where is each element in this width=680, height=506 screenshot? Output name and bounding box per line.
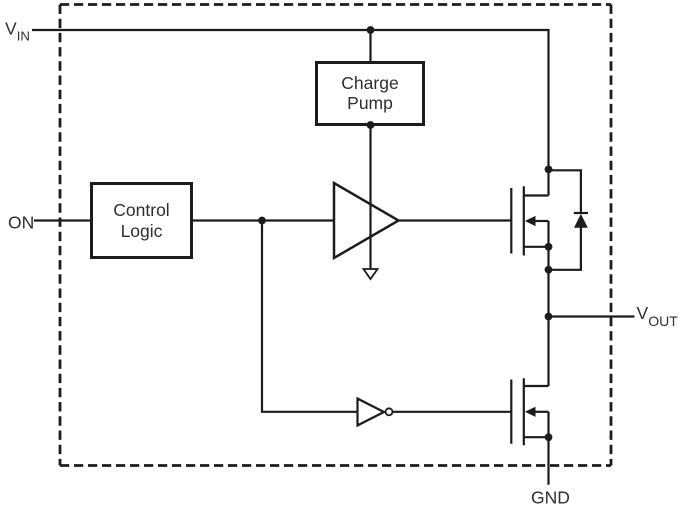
- node junction control output branch: [258, 217, 266, 225]
- svg-text:Control: Control: [113, 200, 169, 220]
- transistor Q2 channel: [523, 378, 525, 445]
- control logic block: [92, 184, 192, 258]
- IC boundary dashed border bottom: [60, 464, 611, 467]
- transistor Q1 channel: [523, 186, 525, 255]
- transistor Q2 source stub: [524, 436, 549, 438]
- node diode rejoin junction: [545, 266, 553, 274]
- wire VOUT output: [549, 315, 635, 317]
- transistor Q2 body arrow: [535, 411, 549, 413]
- node Q1 source junction: [545, 243, 553, 251]
- wire inverter to Q2 gate: [393, 411, 512, 413]
- wire Q2 body-source: [547, 412, 549, 437]
- wire VOUT node to Q2 drain: [547, 317, 549, 387]
- IC boundary dashed border right: [610, 5, 613, 466]
- wire GND: [547, 437, 549, 485]
- wire Q1 body-source: [547, 221, 549, 270]
- IC boundary dashed border left: [59, 5, 62, 466]
- node junction charge pump bottom: [367, 121, 375, 129]
- transistor Q2 drain stub: [524, 385, 549, 387]
- node Q1 drain junction: [545, 166, 553, 174]
- inverter U2 triangle: [358, 399, 385, 426]
- transistor Q1 drain stub: [524, 194, 549, 196]
- charge pump block: [317, 63, 424, 125]
- wire VIN to charge pump: [369, 30, 371, 62]
- node junction VIN to charge pump: [367, 26, 375, 34]
- wire diode branch top: [549, 170, 581, 213]
- wire control logic to driver: [193, 219, 334, 221]
- node VOUT junction: [545, 313, 553, 321]
- driver op-amp buffer triangle: [334, 183, 399, 258]
- wire charge pump to ground symbol: [369, 125, 371, 269]
- transistor Q1 gate plate: [510, 188, 512, 254]
- wire branch to inverter: [262, 221, 358, 412]
- transistor Q1 body arrow: [535, 220, 549, 222]
- wire driver to Q1 gate: [399, 219, 512, 221]
- inverter bubble: [386, 408, 393, 415]
- ground: [364, 269, 378, 279]
- diode D1 cathode bar: [574, 212, 588, 214]
- svg-text:GND: GND: [531, 488, 570, 506]
- wire diode branch bottom: [549, 227, 581, 270]
- wire ON input: [34, 219, 90, 221]
- transistor Q2 gate plate: [510, 380, 512, 444]
- transistor Q1 source stub: [524, 246, 549, 248]
- diode D1: [574, 214, 588, 228]
- svg-text:Charge: Charge: [341, 73, 398, 93]
- svg-text:Logic: Logic: [121, 221, 163, 241]
- node Q2 source junction: [545, 433, 553, 441]
- wire VIN horizontal: [32, 29, 549, 31]
- svg-text:ON: ON: [8, 213, 34, 233]
- wire VIN drop to Q1 drain: [547, 29, 549, 196]
- IC boundary dashed border top: [60, 3, 611, 6]
- wire Q1 source to VOUT node: [547, 270, 549, 317]
- svg-text:Pump: Pump: [347, 93, 393, 113]
